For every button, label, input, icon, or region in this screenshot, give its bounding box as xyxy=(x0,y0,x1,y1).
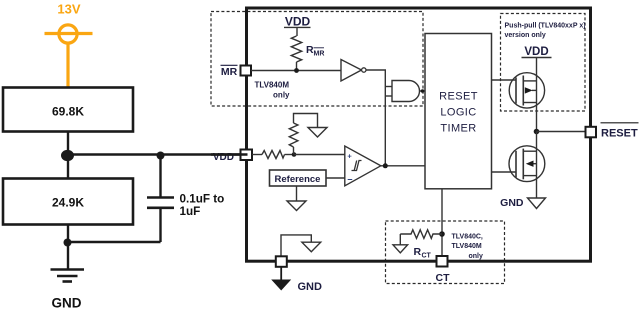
ground triangle (Reference) xyxy=(287,201,306,211)
svg-text:13V: 13V xyxy=(57,2,80,17)
resistor Rct xyxy=(400,230,442,239)
svg-text:RESET: RESET xyxy=(439,91,478,103)
svg-text:GND: GND xyxy=(52,296,82,311)
ground triangle (Rct) xyxy=(393,245,408,253)
wire NMOS drain/source xyxy=(536,132,538,199)
pin CT xyxy=(437,256,448,267)
wire AND output xyxy=(420,90,426,92)
svg-text:GND: GND xyxy=(298,281,323,293)
resistor R2 (divider) xyxy=(293,147,295,155)
wire box2 to ground xyxy=(67,225,69,271)
svg-text:CT: CT xyxy=(422,253,432,260)
wire VDD to Rmr xyxy=(296,27,298,36)
resistor 69.8K xyxy=(3,88,133,132)
GND filled triangle xyxy=(271,280,291,291)
wire node to VDD pin xyxy=(68,153,248,155)
wire R2 top hook xyxy=(294,114,318,128)
svg-text:only: only xyxy=(273,91,290,100)
wire pin to GND symbol xyxy=(280,267,282,280)
CT dashed box xyxy=(386,221,505,284)
comparator U1 xyxy=(345,146,381,186)
svg-text:only: only xyxy=(469,253,483,260)
ground triangle (internal) xyxy=(302,242,321,252)
junction comparator output xyxy=(383,163,388,168)
wire output to RESET pin xyxy=(537,131,587,133)
wire GND pin hook xyxy=(281,235,311,258)
svg-text:CT: CT xyxy=(436,272,451,284)
svg-text:MR: MR xyxy=(221,66,238,78)
svg-text:TLV840M: TLV840M xyxy=(254,81,289,90)
MR dashed box (TLV840M only section) xyxy=(211,12,423,107)
junction output node xyxy=(534,129,540,135)
inverter U2 xyxy=(341,60,362,82)
wire VDD pin to R1 xyxy=(252,154,262,156)
svg-text:−: − xyxy=(347,175,352,185)
wire inverter to AND xyxy=(366,70,385,166)
IC outer border xyxy=(247,8,591,261)
AND gate U3 xyxy=(392,81,420,102)
wire timer to PMOS gate xyxy=(492,79,517,81)
wire comparator output xyxy=(381,165,425,167)
svg-text:VDD: VDD xyxy=(285,15,311,29)
capacitor C1 xyxy=(147,156,174,243)
wire VDD to PMOS and down to output xyxy=(536,58,538,132)
wire junction to comparator xyxy=(294,154,345,156)
wire cap bottom xyxy=(68,241,161,243)
pin VDD xyxy=(241,150,253,161)
wire Reference to ground xyxy=(296,186,298,201)
push-pull dashed box xyxy=(501,14,586,112)
voltage source V1 13V xyxy=(45,25,93,88)
wire Reference to comparator xyxy=(326,177,345,179)
Reference box xyxy=(270,170,327,186)
hysteresis symbol xyxy=(352,161,362,171)
svg-text:24.9K: 24.9K xyxy=(52,196,84,210)
pin RESET xyxy=(586,127,597,138)
node A junction dot xyxy=(61,150,74,161)
ground triangle (NMOS) xyxy=(528,198,546,209)
svg-text:LOGIC: LOGIC xyxy=(440,107,476,119)
ground triangle (R2) xyxy=(308,128,327,138)
RESET LOGIC TIMER block xyxy=(425,34,492,189)
svg-text:RESET: RESET xyxy=(601,128,638,140)
junction dot bottom xyxy=(64,239,72,247)
svg-text:VDD: VDD xyxy=(524,46,548,58)
svg-text:version only: version only xyxy=(505,32,546,39)
wire box1 to node xyxy=(67,132,69,179)
wire MR row xyxy=(251,70,341,72)
junction dot cap top xyxy=(157,152,165,160)
pin MR xyxy=(241,66,252,76)
pin GND xyxy=(276,256,287,267)
svg-text:0.1uF to: 0.1uF to xyxy=(180,193,225,206)
ground (left) xyxy=(51,270,85,282)
resistor Rmr xyxy=(291,36,301,62)
wire AND input stubs xyxy=(385,86,392,88)
junction MR/Rmr xyxy=(294,68,299,73)
svg-text:Push-pull (TLV840xxP x): Push-pull (TLV840xxP x) xyxy=(505,23,586,30)
transistor Q1 (PMOS) xyxy=(509,73,544,108)
svg-text:Reference: Reference xyxy=(275,174,321,185)
junction comparator input xyxy=(292,152,297,157)
wire through VDD pin xyxy=(211,153,248,155)
junction CT xyxy=(439,231,445,237)
svg-text:69.8K: 69.8K xyxy=(52,105,84,119)
svg-text:MR: MR xyxy=(314,51,325,58)
svg-text:+: + xyxy=(347,151,352,160)
svg-text:TLV840M: TLV840M xyxy=(452,243,482,250)
svg-text:R: R xyxy=(414,246,422,258)
wire timer to CT xyxy=(441,189,443,257)
svg-text:TIMER: TIMER xyxy=(440,123,476,135)
svg-text:GND: GND xyxy=(500,197,524,209)
transistor Q2 (NMOS) xyxy=(509,146,545,182)
resistor 24.9K xyxy=(3,179,133,225)
svg-text:TLV840C,: TLV840C, xyxy=(452,234,483,241)
resistor R1 (series) xyxy=(262,151,285,159)
wire timer to NMOS gate xyxy=(492,171,517,173)
svg-text:1uF: 1uF xyxy=(180,205,201,218)
